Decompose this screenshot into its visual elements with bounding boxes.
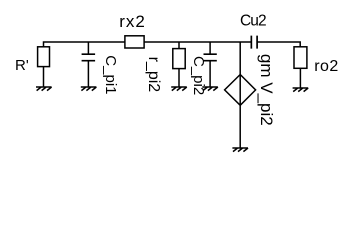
svg-text:C_pi2: C_pi2	[190, 56, 207, 95]
svg-text:R': R'	[15, 57, 29, 74]
svg-text:r_pi2: r_pi2	[145, 57, 162, 93]
svg-text:Cu2: Cu2	[240, 13, 266, 30]
svg-text:C_pi1: C_pi1	[102, 55, 119, 94]
svg-text:gm V_pi2: gm V_pi2	[257, 54, 276, 126]
svg-text:rx2: rx2	[119, 12, 146, 31]
svg-text:ro2: ro2	[314, 58, 339, 75]
